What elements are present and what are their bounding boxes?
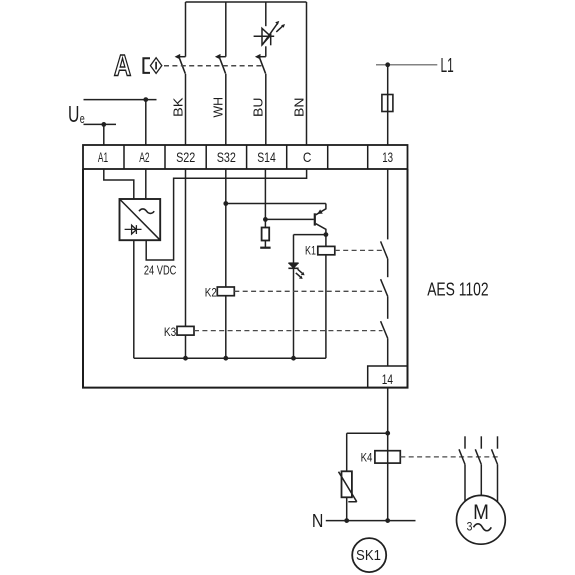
svg-text:L1: L1	[441, 54, 454, 77]
wire BK upper	[185, 2, 187, 57]
wire to varistor	[347, 433, 388, 471]
varistor RV1	[339, 471, 357, 502]
wire K1 to rail	[325, 255, 327, 358]
wire WH upper	[225, 2, 227, 57]
wire PSU to 0V rail	[133, 240, 135, 358]
sensor housing top wire	[186, 1, 307, 3]
wire between contacts	[387, 259, 389, 277]
wire PSU to terminal C	[146, 169, 306, 260]
relay coil K2	[217, 287, 234, 296]
junction dot K4/N	[385, 518, 390, 523]
contact BU (sensor reed switch)	[255, 54, 266, 74]
wire BN	[306, 2, 308, 145]
contactor K4 phase contact 3	[492, 436, 498, 502]
svg-text:K2: K2	[205, 286, 217, 300]
svg-text:A2: A2	[139, 149, 149, 165]
dashed link K2	[234, 290, 382, 292]
junction dot S32	[223, 201, 228, 206]
LED D1 (sensor indicator)	[254, 21, 285, 45]
contact K1 (NO)	[381, 241, 388, 258]
svg-text:A: A	[114, 50, 131, 83]
contact K2 (NO)	[381, 279, 388, 296]
wire A1 to PSU	[104, 169, 134, 199]
svg-text:AES 1102: AES 1102	[427, 279, 488, 299]
svg-text:BK: BK	[170, 97, 185, 117]
wire WH lower	[225, 74, 227, 145]
wire S32 to transistor collector	[226, 203, 326, 205]
svg-text:SK1: SK1	[356, 548, 381, 564]
wire S14 to transistor base	[265, 218, 313, 220]
wire 14 down	[387, 388, 389, 521]
wire Ue to A2	[84, 100, 157, 145]
contactor K4 phase contact 2	[475, 436, 481, 495]
junction dot K2/rail	[223, 356, 228, 361]
wire BU upper	[265, 2, 267, 26]
contact BK (sensor reed switch)	[175, 54, 186, 74]
N line	[326, 520, 416, 522]
module AES 1102 box	[83, 169, 408, 388]
svg-text:K3: K3	[164, 325, 177, 339]
svg-text:C: C	[303, 149, 312, 165]
contact WH (sensor reed switch)	[215, 54, 226, 74]
wire K2 to rail	[225, 296, 227, 358]
junction dot varistor/N	[344, 518, 349, 523]
wire 13 down	[387, 169, 389, 239]
wire BU lower	[265, 74, 267, 145]
junction dot K3/rail	[183, 356, 188, 361]
wire transistor to K1 coil	[325, 235, 327, 247]
contact K3 (NO)	[381, 321, 388, 338]
relay coil K4	[375, 451, 400, 463]
SK1 circle	[352, 538, 386, 572]
resistor R1	[262, 228, 270, 241]
svg-text:S14: S14	[257, 149, 276, 165]
junction dot varistor branch	[385, 431, 390, 436]
0V rail	[134, 357, 326, 359]
wire S32 down	[225, 169, 227, 287]
svg-text:K4: K4	[361, 450, 373, 464]
wire between contacts	[387, 296, 389, 319]
contactor K4 phase contact 1	[459, 436, 465, 501]
wire fuse to terminal 13	[387, 112, 389, 145]
svg-text:M: M	[473, 500, 489, 524]
wire K3 to rail	[185, 335, 187, 358]
svg-text:A1: A1	[98, 149, 108, 165]
svg-text:S32: S32	[217, 149, 236, 165]
wire contact to 14	[387, 338, 389, 366]
dashed link K3	[194, 330, 383, 332]
svg-text:S22: S22	[176, 149, 195, 165]
junction dot S14	[263, 217, 268, 222]
LED D2 (K1 indicator)	[288, 263, 304, 279]
actuator dashed line	[164, 65, 263, 67]
svg-text:14: 14	[382, 371, 393, 387]
power supply U1 (AC/DC)	[120, 199, 161, 240]
svg-text:WH: WH	[211, 97, 226, 118]
relay coil K1	[318, 246, 335, 254]
transistor Q1	[315, 204, 326, 235]
svg-text:13: 13	[382, 149, 393, 165]
junction dot A2 feed	[143, 97, 148, 102]
wire LED to rail	[293, 268, 295, 358]
junction dot LED/rail	[291, 356, 296, 361]
svg-text:U: U	[68, 101, 79, 127]
svg-text:24 VDC: 24 VDC	[144, 264, 177, 278]
junction dot A1 feed	[101, 122, 106, 127]
svg-text:N: N	[312, 511, 324, 531]
terminal 14 box	[368, 366, 408, 388]
fuse F1	[382, 95, 393, 112]
motor tilde	[474, 524, 492, 531]
magnet actuator symbol	[143, 58, 161, 74]
wire BU mid	[265, 46, 267, 56]
svg-text:BU: BU	[251, 97, 266, 117]
svg-text:BN: BN	[291, 97, 306, 117]
wire BK lower	[185, 74, 187, 145]
relay coil K3	[177, 326, 194, 335]
wire Ue to A1	[84, 124, 117, 144]
wire S22 down	[185, 169, 187, 326]
wire L1 down	[387, 65, 389, 95]
wire S14 down	[264, 169, 266, 228]
wire to LED branch	[294, 234, 326, 236]
dashed link K4	[400, 456, 501, 458]
svg-text:3: 3	[467, 520, 473, 534]
terminal strip	[83, 145, 408, 169]
junction dot emitter	[324, 232, 329, 237]
motor M1 circle	[457, 495, 506, 544]
termination bar	[260, 247, 270, 249]
junction dot L1	[385, 62, 390, 67]
L1 wire	[376, 64, 437, 66]
wire resistor lower	[264, 241, 266, 248]
wire LED branch upper	[293, 235, 295, 264]
dashed link K1	[335, 249, 383, 251]
wire varistor to N	[346, 497, 348, 520]
svg-text:K1: K1	[305, 244, 316, 258]
wire A2 to PSU	[145, 169, 147, 199]
